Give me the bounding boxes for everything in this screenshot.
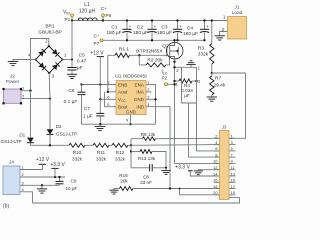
- wire sense bottom to J3 pin8: [189, 103, 220, 157]
- capacitor C3 180uF: [177, 21, 179, 30]
- capacitor C7 1uF: [99, 99, 101, 113]
- resistor R7 29.4k: [210, 76, 214, 95]
- wire Q2 source: [174, 59, 176, 163]
- svg-text:µF: µF: [77, 65, 83, 71]
- svg-text:C5: C5: [79, 52, 85, 58]
- svg-text:ENB: ENB: [118, 82, 127, 87]
- svg-text:D2: D2: [56, 124, 62, 129]
- svg-text:R12: R12: [116, 150, 125, 155]
- svg-text:µF: µF: [184, 93, 190, 98]
- wire J2 pin2 to D2 rail: [21, 98, 50, 100]
- wire top rail: [72, 20, 228, 22]
- ground at J4: [37, 188, 47, 190]
- svg-text:C−: C−: [94, 33, 100, 39]
- wire: [85, 144, 93, 146]
- svg-text:GBU8J-BP: GBU8J-BP: [38, 30, 61, 36]
- svg-text:J4: J4: [9, 160, 14, 166]
- ground at R16: [114, 189, 120, 191]
- svg-text:29.4k: 29.4k: [214, 83, 226, 89]
- transistor Q2 IXTP32N65X: [166, 42, 183, 59]
- svg-text:+3.3 V: +3.3 V: [50, 162, 65, 168]
- svg-text:+12 V: +12 V: [90, 51, 104, 57]
- svg-text:J1: J1: [234, 4, 239, 10]
- wire R3-R7 node to J3 pin1: [212, 73, 246, 138]
- wire R1 to gate: [130, 54, 167, 56]
- capacitor C8 33nF: [131, 167, 150, 169]
- svg-text:180 µF: 180 µF: [183, 31, 198, 37]
- +12V supply tap: [97, 56, 104, 58]
- svg-text:P1: P1: [65, 17, 71, 22]
- wire bridge left to ground: [13, 60, 36, 62]
- svg-text:C7: C7: [84, 106, 90, 112]
- svg-text:15: 15: [231, 178, 236, 183]
- svg-text:R2 20k: R2 20k: [147, 58, 163, 64]
- svg-text:GS1J-LTP: GS1J-LTP: [1, 139, 22, 144]
- capacitor C9 10uF: [59, 177, 61, 181]
- svg-text:+3.3 V: +3.3 V: [175, 165, 190, 171]
- wire R10 row: [31, 144, 70, 146]
- svg-text:GS1J-LTP: GS1J-LTP: [56, 131, 77, 136]
- svg-text:332k: 332k: [198, 52, 209, 58]
- svg-text:1 µF: 1 µF: [83, 113, 93, 119]
- svg-text:C9: C9: [71, 178, 77, 183]
- node C+ / P6: [102, 14, 105, 17]
- svg-text:INB: INB: [136, 105, 144, 110]
- wire VIN vertical: [71, 21, 73, 60]
- svg-text:10: 10: [213, 159, 218, 164]
- wire J4 pin2 +3.3V: [20, 176, 65, 178]
- ground at C5: [67, 73, 77, 75]
- svg-text:R11: R11: [97, 150, 106, 155]
- wire Q2 drain to rail: [174, 40, 176, 42]
- connector J1 Load: [228, 17, 247, 40]
- wire GND pin3 to ground bus: [152, 98, 156, 100]
- svg-text:R1 1: R1 1: [119, 46, 129, 52]
- node R3-R7: [211, 72, 213, 74]
- svg-text:0.47: 0.47: [77, 59, 87, 65]
- resistor R11 332k: [93, 143, 109, 147]
- svg-text:VCC: VCC: [118, 97, 126, 103]
- svg-text:C3: C3: [161, 24, 167, 30]
- svg-text:Load: Load: [232, 10, 243, 16]
- svg-text:IXTP32N65X: IXTP32N65X: [136, 49, 163, 54]
- svg-text:C8: C8: [143, 174, 149, 179]
- svg-text:P6: P6: [106, 13, 112, 18]
- svg-text:18: 18: [213, 184, 218, 189]
- svg-text:19: 19: [231, 190, 236, 195]
- capacitor C4 180uF: [204, 21, 206, 30]
- ground at bridge: [8, 61, 18, 63]
- svg-text:Q2: Q2: [162, 43, 169, 49]
- wire sense block outline: [182, 67, 197, 103]
- +12V tap at J4 pin1: [20, 169, 43, 171]
- svg-text:20k: 20k: [120, 179, 128, 184]
- svg-text:+12 V: +12 V: [36, 157, 50, 163]
- svg-text:180 µF: 180 µF: [157, 30, 172, 36]
- wire sense right to J3 pin6: [197, 67, 220, 151]
- svg-text:13: 13: [231, 171, 236, 176]
- wire sense top (pins 2-1): [175, 66, 197, 68]
- node VIN / P1: [71, 14, 74, 17]
- resistor R9 13k: [131, 138, 143, 140]
- wire Vcc pin6: [99, 85, 101, 100]
- capacitor C6 0.1uF: [81, 85, 83, 93]
- svg-text:U1 IXDD604SI: U1 IXDD604SI: [115, 74, 146, 80]
- capacitor C2 180uF: [151, 21, 153, 30]
- ground at J3 pin12: [198, 170, 219, 171]
- ground under IC: [95, 125, 105, 127]
- wire J2 pin1 to D1 rail: [21, 90, 31, 92]
- resistor R4 0.033: [175, 80, 180, 82]
- svg-text:GND: GND: [134, 97, 145, 102]
- wire R12 to ladder node and J3 pin4: [128, 144, 220, 147]
- capacitor C1 180uF: [126, 21, 128, 30]
- wire ladder vertical: [130, 139, 132, 168]
- svg-text:33 nF: 33 nF: [140, 180, 152, 185]
- wire branch to J3 pin20: [180, 189, 220, 195]
- wire Aout to R1: [108, 55, 111, 92]
- svg-text:L1: L1: [84, 2, 90, 8]
- wire ENA tie to GND pin: [152, 85, 156, 100]
- capacitor C5 0.47uF: [71, 60, 73, 68]
- svg-text:P7: P7: [94, 41, 100, 46]
- wire source to J3 pin10: [175, 162, 220, 164]
- svg-text:180 µF: 180 µF: [106, 30, 121, 36]
- wire ground bus under IC: [82, 123, 156, 125]
- svg-text:Power: Power: [6, 79, 20, 85]
- ground at J1: [215, 35, 225, 37]
- wire bottom cap rail: [103, 39, 205, 41]
- ground at C8: [165, 168, 167, 171]
- svg-text:C+: C+: [101, 6, 107, 12]
- ground at sense pin1: [190, 65, 192, 68]
- svg-text:C1: C1: [111, 24, 117, 30]
- ground at R7: [207, 96, 217, 98]
- svg-text:D1: D1: [19, 133, 25, 138]
- resistor R12 332k: [112, 143, 128, 147]
- svg-text:INA: INA: [136, 90, 145, 95]
- svg-text:R3: R3: [198, 45, 204, 51]
- svg-text:Aout: Aout: [118, 90, 128, 95]
- svg-text:180 µF: 180 µF: [133, 30, 148, 36]
- svg-text:332k: 332k: [96, 157, 107, 162]
- diode D2 GS1J-LTP: [49, 99, 51, 130]
- wire INB pin4 to ladder node: [152, 107, 171, 189]
- svg-text:P2: P2: [162, 75, 168, 80]
- svg-text:R7: R7: [215, 76, 221, 82]
- resistor R10 332k: [69, 143, 85, 147]
- svg-text:J2: J2: [10, 74, 15, 80]
- resistor R2 20k: [139, 55, 146, 65]
- wire R16 to J3 pin18: [133, 188, 220, 190]
- wire bridge top loop to J2: [31, 39, 49, 91]
- svg-text:332k: 332k: [115, 157, 126, 162]
- svg-text:ENA: ENA: [135, 82, 145, 87]
- wire J1 pin2 to ground: [220, 32, 228, 36]
- wire bridge bottom to D2: [48, 73, 51, 99]
- svg-text:C4: C4: [187, 26, 193, 32]
- svg-text:10 µF: 10 µF: [66, 186, 78, 191]
- svg-text:332k: 332k: [72, 157, 83, 162]
- resistor R3 332k: [211, 21, 213, 44]
- wire pin8 ENB to +12V rail: [82, 84, 111, 86]
- svg-text:0.033: 0.033: [181, 88, 193, 93]
- svg-text:16: 16: [213, 178, 218, 183]
- svg-text:C6: C6: [68, 88, 74, 94]
- wire bottom loop to J3: [33, 198, 240, 203]
- resistor R13 13k: [130, 150, 132, 152]
- svg-text:R16: R16: [119, 173, 128, 178]
- svg-text:(b): (b): [3, 204, 9, 210]
- node C- / P7: [100, 39, 103, 42]
- svg-text:17: 17: [231, 184, 236, 189]
- wire J4 pin4 bottom loop: [20, 192, 33, 203]
- svg-text:0.1 µF: 0.1 µF: [64, 99, 78, 105]
- svg-text:120 µH: 120 µH: [79, 9, 96, 15]
- svg-text:20: 20: [213, 190, 218, 195]
- wire J4 pin3 to ground: [20, 184, 60, 186]
- resistor R1 1: [108, 54, 115, 56]
- wire R9 to J3 pin2: [156, 137, 220, 139]
- pin 9 stub: [130, 115, 132, 125]
- svg-text:C2: C2: [137, 24, 143, 30]
- wire bridge right to VIN node: [63, 59, 73, 61]
- svg-text:BR1: BR1: [45, 24, 55, 30]
- svg-text:R10: R10: [73, 150, 82, 155]
- wire: [109, 144, 112, 146]
- svg-text:J3: J3: [222, 125, 227, 130]
- wire Bout tie to Aout: [105, 92, 111, 107]
- svg-text:R9 13k: R9 13k: [141, 132, 156, 137]
- inductor L1 120uH: [78, 18, 97, 21]
- diode D1 GS1J-LTP: [30, 91, 32, 138]
- svg-text:R13 13k: R13 13k: [138, 156, 156, 161]
- svg-text:GND: GND: [126, 109, 137, 114]
